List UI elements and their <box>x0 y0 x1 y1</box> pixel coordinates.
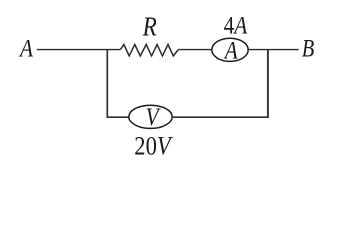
svg-text:A: A <box>18 35 34 63</box>
resistor R <box>120 45 178 56</box>
voltmeter U2 <box>129 103 172 131</box>
wire bottom left <box>107 116 130 118</box>
wire <box>248 49 299 51</box>
svg-text:A: A <box>223 37 239 65</box>
wire bottom right <box>172 116 269 118</box>
wire right vertical <box>267 50 269 118</box>
wire left vertical <box>106 50 108 118</box>
ammeter U1 <box>212 37 248 65</box>
wire <box>37 49 121 51</box>
svg-text:4A: 4A <box>224 12 248 40</box>
svg-text:20V: 20V <box>134 132 173 161</box>
wire <box>178 49 212 51</box>
svg-text:R: R <box>142 13 157 42</box>
svg-text:B: B <box>302 35 315 62</box>
